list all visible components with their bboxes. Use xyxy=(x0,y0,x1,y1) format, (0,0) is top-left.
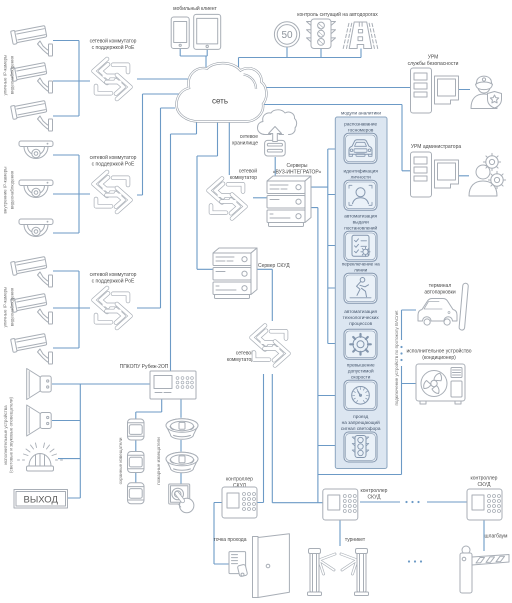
svg-text:распознавание: распознавание xyxy=(344,122,377,127)
svg-text:точка прохода: точка прохода xyxy=(213,537,246,543)
svg-text:сигнал светофора: сигнал светофора xyxy=(341,426,381,431)
svg-text:СКУД: СКУД xyxy=(478,482,492,488)
svg-text:хранилище: хранилище xyxy=(232,141,258,147)
svg-text:50: 50 xyxy=(281,30,293,41)
svg-text:сетевой: сетевой xyxy=(236,350,255,357)
svg-text:технологических: технологических xyxy=(343,315,380,320)
svg-text:уличные IP-камеры: уличные IP-камеры xyxy=(3,287,8,328)
svg-text:сетевой коммутатор: сетевой коммутатор xyxy=(90,38,137,45)
svg-text:сетевой: сетевой xyxy=(239,168,258,175)
svg-text:видеонаблюдения: видеонаблюдения xyxy=(10,287,15,326)
svg-text:с поддержкой PoE: с поддержкой PoE xyxy=(92,161,135,168)
svg-text:видеонаблюдения: видеонаблюдения xyxy=(10,55,15,94)
svg-text:контроллер: контроллер xyxy=(361,488,388,494)
svg-text:допустимой: допустимой xyxy=(348,368,374,374)
svg-text:сетевое: сетевое xyxy=(240,134,259,140)
svg-text:исполнительное устройство: исполнительное устройство xyxy=(407,348,472,355)
svg-text:охранные извещатели: охранные извещатели xyxy=(118,437,123,484)
svg-text:контроллер: контроллер xyxy=(471,476,498,482)
svg-text:ВЫХОД: ВЫХОД xyxy=(24,495,59,506)
svg-text:автоматизация: автоматизация xyxy=(344,309,377,314)
svg-text:СКУД: СКУД xyxy=(368,495,382,501)
svg-text:линии: линии xyxy=(354,268,368,273)
svg-text:превышение: превышение xyxy=(347,363,375,368)
svg-text:контроль ситуаций на автодорог: контроль ситуаций на автодорогах xyxy=(297,11,378,18)
svg-text:личности: личности xyxy=(351,175,371,180)
svg-text:шлагбаум: шлагбаум xyxy=(485,534,508,540)
svg-text:УРМ: УРМ xyxy=(428,55,439,61)
svg-text:УРМ администратора: УРМ администратора xyxy=(411,144,462,150)
svg-text:автопарковки: автопарковки xyxy=(424,290,455,296)
svg-text:ППКОПУ Рубеж-2ОП: ППКОПУ Рубеж-2ОП xyxy=(120,364,169,370)
svg-text:с поддержкой PoE: с поддержкой PoE xyxy=(92,278,135,285)
svg-text:с поддержкой PoE: с поддержкой PoE xyxy=(92,44,135,51)
svg-text:мобильный клиент: мобильный клиент xyxy=(173,5,217,12)
svg-text:процессов: процессов xyxy=(349,321,372,326)
svg-text:переключение на: переключение на xyxy=(342,262,380,267)
svg-text:коммутатор: коммутатор xyxy=(227,357,254,363)
svg-text:выдачи: выдачи xyxy=(353,220,370,225)
svg-text:модули аналитики: модули аналитики xyxy=(341,111,381,116)
svg-text:внутренние IP-камеры: внутренние IP-камеры xyxy=(3,166,8,213)
svg-text:(световые и звуковые оповещате: (световые и звуковые оповещатели) xyxy=(9,397,14,473)
svg-text:контроллер: контроллер xyxy=(226,477,253,483)
svg-text:«ВУЗ-ИНТЕГРАТОР»: «ВУЗ-ИНТЕГРАТОР» xyxy=(273,170,322,176)
svg-text:Серверы: Серверы xyxy=(287,163,308,169)
svg-text:идентификация: идентификация xyxy=(343,169,378,174)
svg-text:терминал: терминал xyxy=(429,283,452,289)
svg-text:сетевой коммутатор: сетевой коммутатор xyxy=(90,154,137,161)
svg-text:госномеров: госномеров xyxy=(348,128,374,133)
svg-text:сетевой коммутатор: сетевой коммутатор xyxy=(90,271,137,278)
svg-text:видеонаблюдения: видеонаблюдения xyxy=(10,170,15,209)
svg-text:сеть: сеть xyxy=(212,97,228,106)
svg-text:на запрещающий: на запрещающий xyxy=(342,419,380,425)
svg-text:(кондиционер): (кондиционер) xyxy=(422,355,456,361)
svg-text:подключение устройств по прото: подключение устройств по протоколу BACne… xyxy=(393,310,399,406)
svg-text:службы безопасности: службы безопасности xyxy=(408,61,459,67)
svg-text:турникет: турникет xyxy=(345,537,366,543)
svg-text:пожарные извещатели: пожарные извещатели xyxy=(156,437,161,485)
svg-text:постановлений: постановлений xyxy=(344,225,377,231)
svg-text:проезд: проезд xyxy=(353,414,368,419)
svg-text:автоматизация: автоматизация xyxy=(344,214,377,219)
svg-text:уличные IP-камеры: уличные IP-камеры xyxy=(3,55,8,96)
svg-text:скорости: скорости xyxy=(351,375,371,380)
svg-text:Сервер СКУД: Сервер СКУД xyxy=(258,263,290,269)
svg-text:коммутатор: коммутатор xyxy=(230,175,257,181)
svg-text:исполнительные устройства: исполнительные устройства xyxy=(2,405,8,465)
